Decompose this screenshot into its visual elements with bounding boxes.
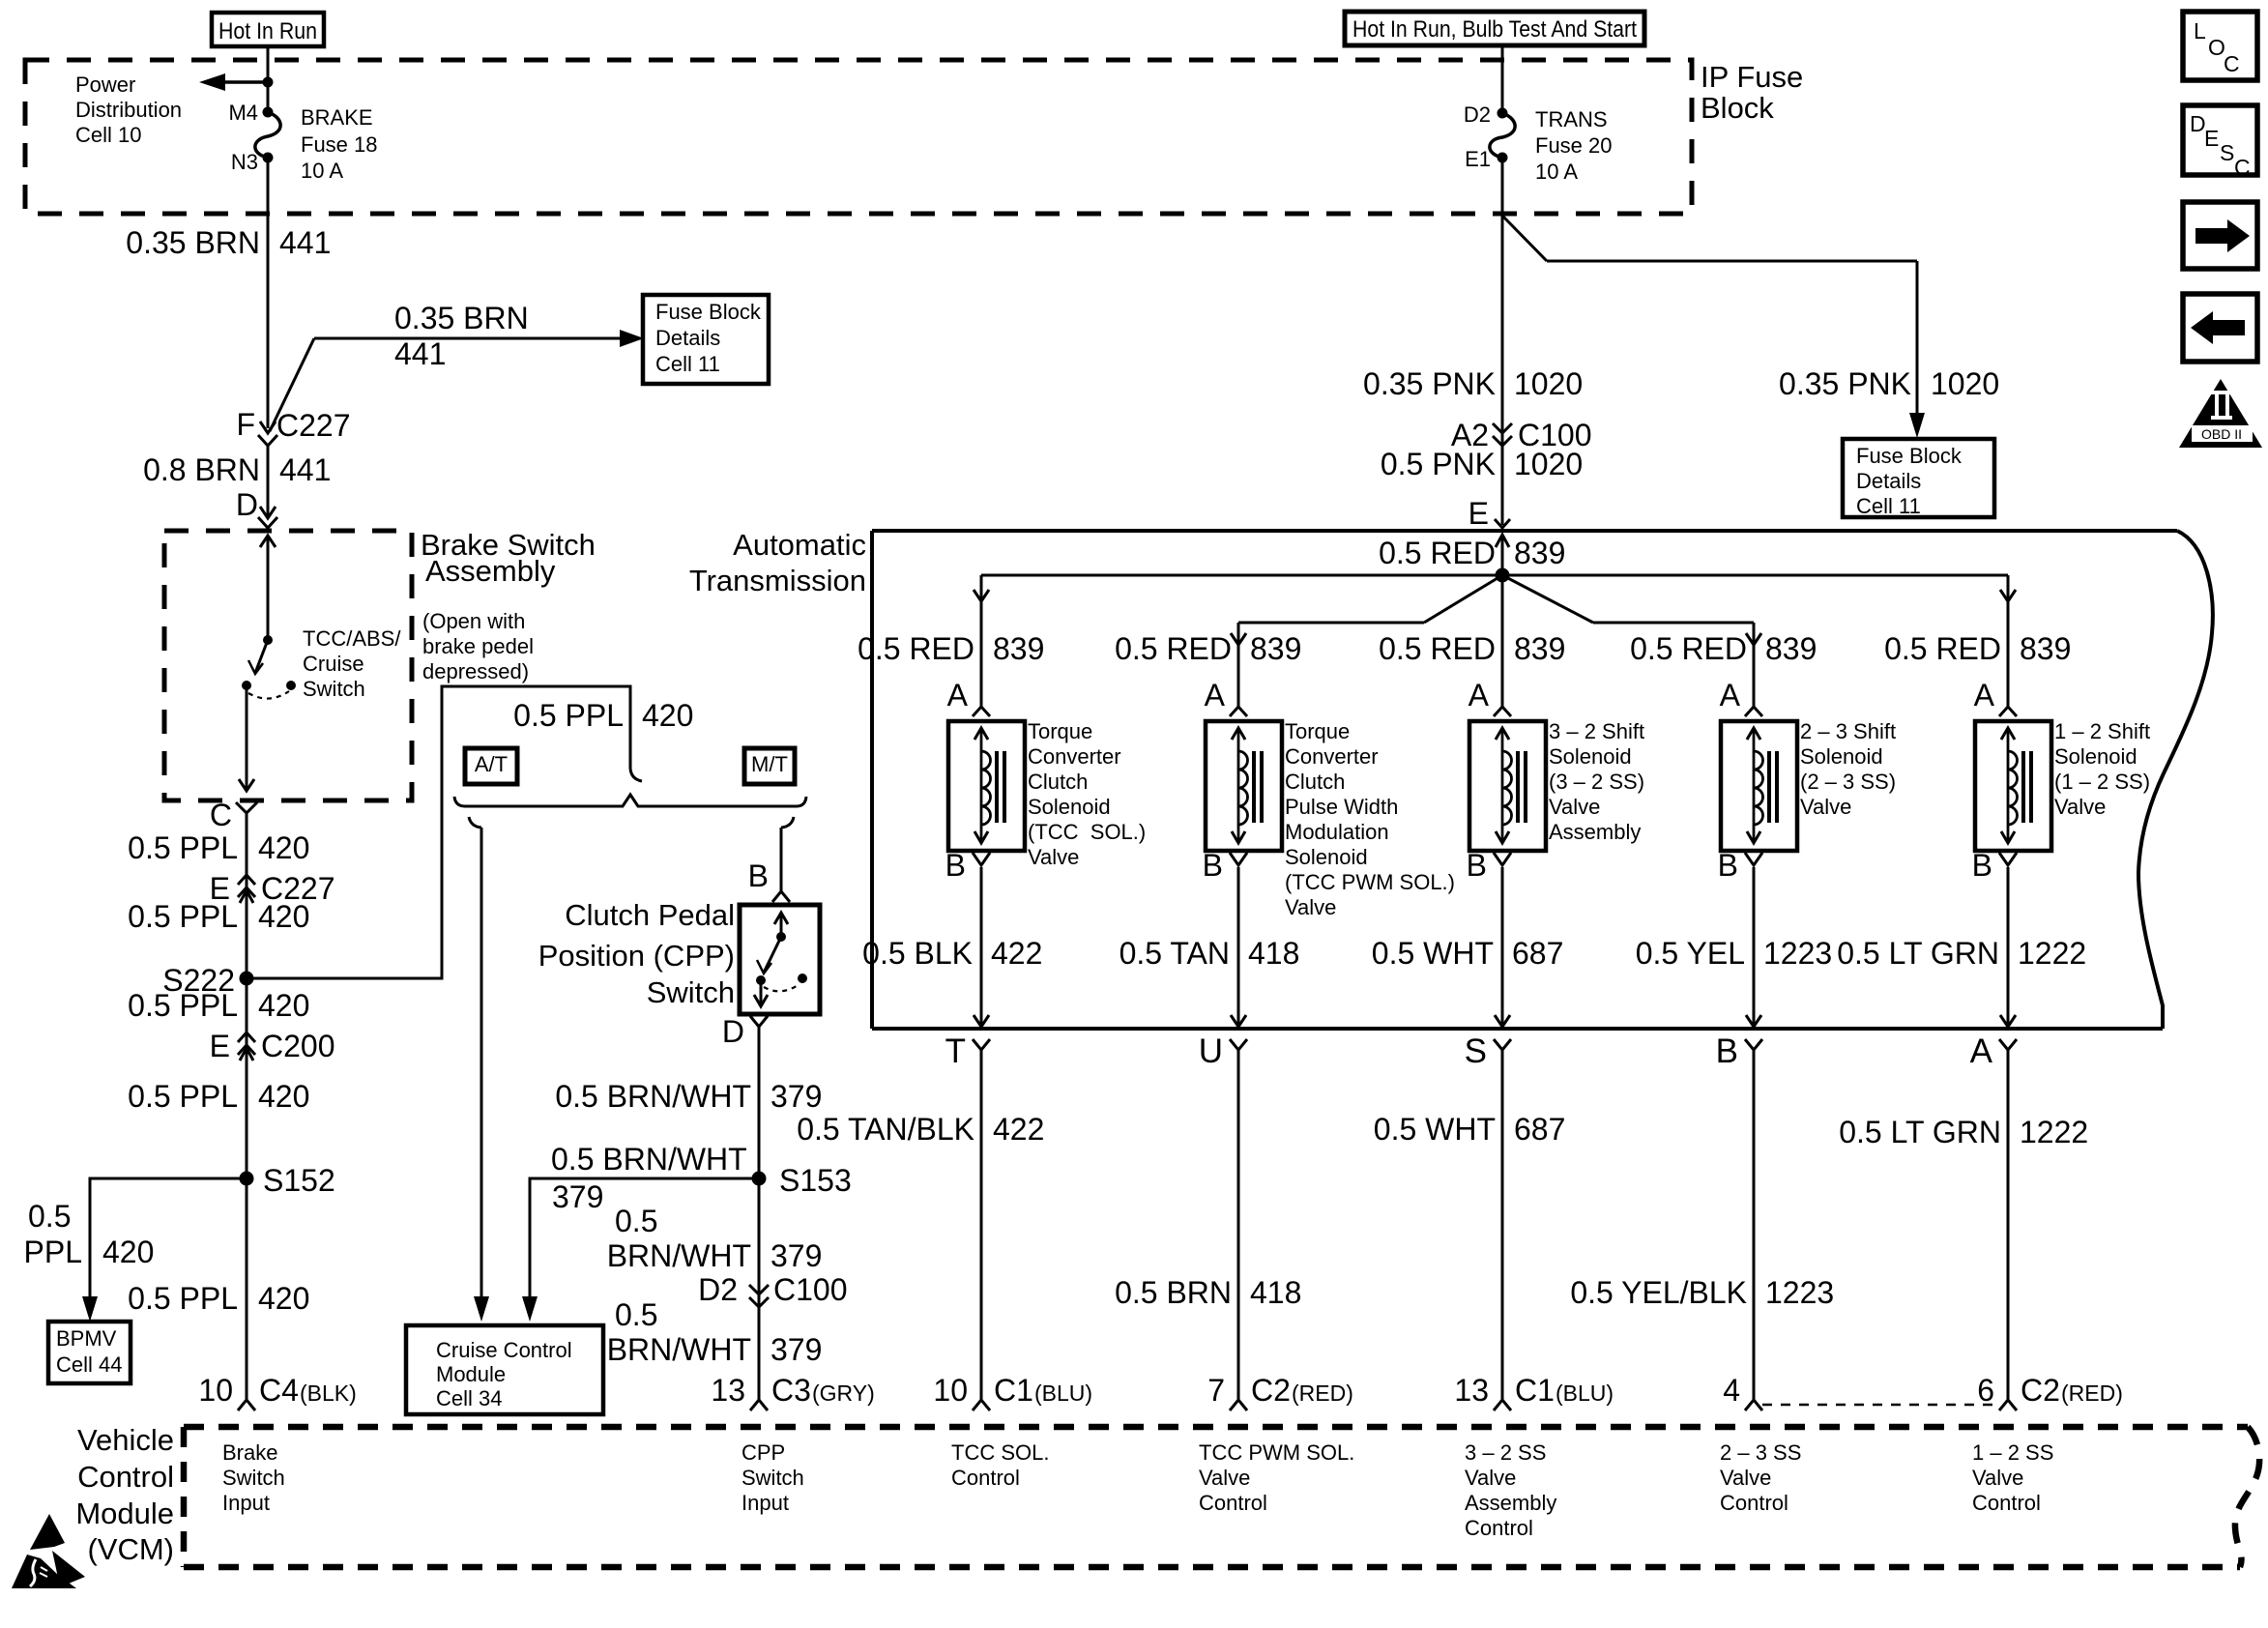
svg-text:E: E [2204, 126, 2219, 151]
svg-text:(3 – 2 SS): (3 – 2 SS) [1549, 770, 1644, 794]
svg-text:Details: Details [655, 326, 720, 350]
svg-text:BRAKE: BRAKE [301, 105, 373, 130]
svg-text:13: 13 [1454, 1373, 1489, 1408]
svg-text:Control: Control [77, 1460, 174, 1494]
svg-text:Cell 44: Cell 44 [56, 1352, 122, 1377]
svg-text:Control: Control [1465, 1516, 1533, 1540]
svg-text:Valve: Valve [1028, 845, 1079, 869]
svg-text:418: 418 [1248, 936, 1299, 971]
svg-text:0.5 PPL: 0.5 PPL [128, 899, 238, 934]
svg-text:Clutch: Clutch [1028, 770, 1088, 794]
svg-text:0.5 TAN: 0.5 TAN [1119, 936, 1230, 971]
svg-text:BRN/WHT: BRN/WHT [607, 1332, 751, 1367]
svg-text:Transmission: Transmission [689, 564, 866, 597]
svg-text:3 – 2 SS: 3 – 2 SS [1465, 1440, 1546, 1465]
svg-text:0.5 PPL: 0.5 PPL [128, 988, 238, 1023]
svg-text:BRN/WHT: BRN/WHT [607, 1238, 751, 1273]
svg-text:0.5 WHT: 0.5 WHT [1374, 1112, 1496, 1147]
svg-text:C100: C100 [773, 1272, 848, 1307]
svg-text:TRANS: TRANS [1535, 107, 1608, 131]
svg-text:A: A [1970, 1032, 1993, 1070]
svg-text:379: 379 [771, 1079, 822, 1114]
svg-text:0.5: 0.5 [28, 1199, 71, 1234]
svg-text:839: 839 [1250, 631, 1301, 666]
svg-text:Control: Control [951, 1466, 1020, 1490]
svg-text:Switch: Switch [222, 1466, 285, 1490]
svg-text:C: C [2234, 155, 2251, 180]
svg-text:0.5 YEL/BLK: 0.5 YEL/BLK [1570, 1275, 1747, 1310]
svg-text:0.35 BRN: 0.35 BRN [394, 301, 529, 335]
svg-text:1223: 1223 [1763, 936, 1832, 971]
svg-text:687: 687 [1514, 1112, 1565, 1147]
svg-text:0.5 PPL: 0.5 PPL [128, 830, 238, 865]
svg-text:2 – 3 SS: 2 – 3 SS [1720, 1440, 1801, 1465]
svg-text:441: 441 [279, 225, 331, 260]
svg-text:6: 6 [1977, 1373, 1994, 1408]
svg-text:839: 839 [1765, 631, 1817, 666]
svg-text:Assembly: Assembly [1465, 1491, 1556, 1515]
svg-text:(TCC SOL.): (TCC SOL.) [1028, 820, 1146, 844]
svg-text:Distribution: Distribution [75, 98, 182, 122]
svg-text:Cell 11: Cell 11 [1856, 494, 1921, 518]
svg-text:M/T: M/T [751, 752, 788, 776]
svg-text:Input: Input [741, 1491, 789, 1515]
svg-text:C1: C1 [994, 1373, 1033, 1408]
svg-text:2 – 3 Shift: 2 – 3 Shift [1800, 719, 1896, 743]
svg-text:10: 10 [933, 1373, 968, 1408]
svg-text:420: 420 [258, 988, 309, 1023]
svg-text:0.35 PNK: 0.35 PNK [1779, 366, 1911, 401]
svg-text:Torque: Torque [1028, 719, 1092, 743]
svg-text:Valve: Valve [1465, 1466, 1516, 1490]
svg-text:Solenoid: Solenoid [1028, 795, 1111, 819]
svg-text:(RED): (RED) [2061, 1381, 2123, 1406]
svg-text:CPP: CPP [741, 1440, 785, 1465]
svg-text:Assembly: Assembly [1549, 820, 1641, 844]
svg-text:Solenoid: Solenoid [1800, 744, 1883, 769]
svg-text:1020: 1020 [1514, 366, 1583, 401]
svg-text:1222: 1222 [2018, 936, 2086, 971]
svg-text:brake pedel: brake pedel [422, 634, 534, 658]
svg-text:Converter: Converter [1285, 744, 1379, 769]
svg-text:0.5: 0.5 [615, 1204, 657, 1238]
svg-text:0.5 BRN: 0.5 BRN [1115, 1275, 1232, 1310]
svg-text:B: B [1716, 1032, 1738, 1070]
svg-text:0.5 YEL: 0.5 YEL [1636, 936, 1745, 971]
svg-text:Details: Details [1856, 469, 1921, 493]
svg-text:Module: Module [436, 1362, 506, 1386]
svg-text:0.8 BRN: 0.8 BRN [143, 452, 260, 487]
svg-text:1 – 2 Shift: 1 – 2 Shift [2054, 719, 2150, 743]
svg-text:B: B [748, 858, 769, 893]
svg-text:Control: Control [1199, 1491, 1267, 1515]
svg-text:Input: Input [222, 1491, 270, 1515]
svg-text:(VCM): (VCM) [87, 1532, 174, 1566]
svg-text:0.35 PNK: 0.35 PNK [1363, 366, 1496, 401]
svg-text:10 A: 10 A [1535, 160, 1578, 184]
svg-text:Valve: Valve [2054, 795, 2106, 819]
svg-text:S: S [2220, 140, 2234, 165]
svg-text:1 – 2 SS: 1 – 2 SS [1972, 1440, 2053, 1465]
svg-text:(BLU): (BLU) [1034, 1381, 1092, 1406]
svg-text:Solenoid: Solenoid [1285, 845, 1368, 869]
svg-text:0.5 PPL: 0.5 PPL [513, 698, 624, 733]
svg-text:Switch: Switch [303, 677, 365, 701]
svg-text:Pulse Width: Pulse Width [1285, 795, 1398, 819]
svg-text:(GRY): (GRY) [812, 1381, 875, 1406]
svg-text:839: 839 [993, 631, 1044, 666]
svg-text:420: 420 [642, 698, 693, 733]
svg-text:A/T: A/T [475, 752, 508, 776]
svg-text:BPMV: BPMV [56, 1326, 117, 1351]
svg-text:E: E [1468, 496, 1489, 531]
svg-text:OBD II: OBD II [2201, 426, 2242, 442]
svg-text:Switch: Switch [647, 975, 735, 1009]
svg-text:Valve: Valve [1285, 895, 1336, 919]
svg-text:Vehicle: Vehicle [77, 1423, 174, 1457]
svg-text:420: 420 [258, 1281, 309, 1316]
svg-text:441: 441 [394, 336, 446, 371]
svg-text:Cell 34: Cell 34 [436, 1386, 502, 1410]
svg-text:0.5 TAN/BLK: 0.5 TAN/BLK [797, 1112, 974, 1147]
svg-text:M4: M4 [228, 101, 258, 125]
svg-text:Fuse 18: Fuse 18 [301, 132, 378, 157]
svg-text:Cruise: Cruise [303, 652, 364, 676]
svg-text:Power: Power [75, 73, 135, 97]
svg-text:F: F [236, 407, 255, 442]
svg-text:839: 839 [1514, 536, 1565, 570]
svg-text:Modulation: Modulation [1285, 820, 1389, 844]
svg-text:Fuse Block: Fuse Block [1856, 444, 1963, 468]
svg-text:Torque: Torque [1285, 719, 1350, 743]
svg-text:Brake: Brake [222, 1440, 277, 1465]
svg-text:S: S [1465, 1032, 1487, 1070]
svg-text:Valve: Valve [1800, 795, 1851, 819]
svg-text:TCC PWM SOL.: TCC PWM SOL. [1199, 1440, 1354, 1465]
svg-text:E: E [210, 1029, 230, 1063]
svg-text:10: 10 [198, 1373, 233, 1408]
svg-text:0.5 WHT: 0.5 WHT [1372, 936, 1494, 971]
svg-text:A: A [1974, 678, 1995, 712]
svg-text:(BLK): (BLK) [300, 1381, 357, 1406]
svg-text:Cruise Control: Cruise Control [436, 1338, 572, 1362]
svg-text:Fuse Block: Fuse Block [655, 300, 762, 324]
svg-text:422: 422 [993, 1112, 1044, 1147]
svg-text:D2: D2 [1464, 102, 1491, 127]
svg-text:0.5 RED: 0.5 RED [858, 631, 974, 666]
svg-text:4: 4 [1723, 1373, 1740, 1408]
svg-text:0.5 LT GRN: 0.5 LT GRN [1837, 936, 1999, 971]
svg-text:C2: C2 [2021, 1373, 2060, 1408]
svg-text:Solenoid: Solenoid [1549, 744, 1632, 769]
svg-text:1020: 1020 [1514, 447, 1583, 481]
svg-text:depressed): depressed) [422, 659, 529, 683]
svg-text:Switch: Switch [741, 1466, 804, 1490]
svg-text:Hot In Run: Hot In Run [218, 18, 317, 44]
svg-text:839: 839 [2020, 631, 2071, 666]
svg-text:TCC/ABS/: TCC/ABS/ [303, 626, 401, 651]
svg-text:Valve: Valve [1972, 1466, 2023, 1490]
svg-text:379: 379 [771, 1238, 822, 1273]
svg-text:Automatic: Automatic [733, 528, 866, 562]
svg-text:0.5 RED: 0.5 RED [1115, 631, 1232, 666]
svg-text:Assembly: Assembly [425, 554, 556, 588]
svg-text:420: 420 [258, 899, 309, 934]
svg-text:(Open with: (Open with [422, 609, 525, 633]
svg-text:1222: 1222 [2020, 1115, 2088, 1149]
svg-text:Control: Control [1972, 1491, 2041, 1515]
svg-text:B: B [1972, 848, 1992, 883]
svg-text:Hot In Run, Bulb Test And Star: Hot In Run, Bulb Test And Start [1352, 16, 1637, 43]
svg-text:0.5 RED: 0.5 RED [1379, 631, 1496, 666]
svg-text:0.5 BLK: 0.5 BLK [862, 936, 973, 971]
svg-text:839: 839 [1514, 631, 1565, 666]
svg-text:U: U [1199, 1032, 1223, 1070]
svg-text:0.5: 0.5 [615, 1297, 657, 1332]
svg-text:(RED): (RED) [1292, 1381, 1353, 1406]
svg-text:B: B [1203, 848, 1223, 883]
svg-text:S152: S152 [263, 1163, 335, 1198]
svg-text:(2 – 3 SS): (2 – 3 SS) [1800, 770, 1896, 794]
svg-text:N3: N3 [231, 150, 258, 174]
svg-text:Clutch Pedal: Clutch Pedal [565, 898, 735, 932]
svg-text:Valve: Valve [1549, 795, 1600, 819]
svg-text:C4: C4 [259, 1373, 299, 1408]
svg-text:Cell 11: Cell 11 [655, 352, 720, 376]
svg-text:IP Fuse: IP Fuse [1701, 60, 1803, 94]
svg-text:0.35 BRN: 0.35 BRN [126, 225, 260, 260]
svg-text:E1: E1 [1465, 147, 1491, 171]
svg-text:C200: C200 [261, 1029, 335, 1063]
svg-text:(BLU): (BLU) [1556, 1381, 1614, 1406]
svg-text:10 A: 10 A [301, 159, 343, 183]
svg-text:D2: D2 [698, 1272, 738, 1307]
svg-text:420: 420 [102, 1235, 154, 1269]
svg-text:418: 418 [1250, 1275, 1301, 1310]
svg-text:A: A [1468, 678, 1490, 712]
svg-text:0.5 RED: 0.5 RED [1630, 631, 1747, 666]
svg-text:D: D [722, 1014, 744, 1049]
svg-text:C2: C2 [1251, 1373, 1291, 1408]
svg-text:C227: C227 [276, 408, 351, 443]
svg-text:C1: C1 [1515, 1373, 1555, 1408]
svg-text:0.5 PNK: 0.5 PNK [1381, 447, 1496, 481]
svg-text:Converter: Converter [1028, 744, 1121, 769]
svg-text:420: 420 [258, 1079, 309, 1114]
svg-text:441: 441 [279, 452, 331, 487]
svg-text:687: 687 [1512, 936, 1563, 971]
svg-text:0.5 PPL: 0.5 PPL [128, 1079, 238, 1114]
svg-text:Module: Module [75, 1497, 174, 1530]
svg-text:PPL: PPL [24, 1235, 82, 1269]
svg-text:Fuse 20: Fuse 20 [1535, 133, 1613, 158]
svg-text:379: 379 [771, 1332, 822, 1367]
svg-text:Control: Control [1720, 1491, 1788, 1515]
svg-text:3 – 2 Shift: 3 – 2 Shift [1549, 719, 1644, 743]
svg-text:Position (CPP): Position (CPP) [538, 939, 735, 973]
svg-text:420: 420 [258, 830, 309, 865]
svg-text:0.5 RED: 0.5 RED [1379, 536, 1496, 570]
svg-text:C: C [210, 798, 232, 832]
svg-text:0.5 BRN/WHT: 0.5 BRN/WHT [551, 1142, 747, 1177]
svg-text:Cell 10: Cell 10 [75, 123, 141, 147]
svg-text:A: A [1720, 678, 1741, 712]
svg-text:1223: 1223 [1765, 1275, 1834, 1310]
svg-text:B: B [1718, 848, 1738, 883]
svg-text:(TCC PWM SOL.): (TCC PWM SOL.) [1285, 870, 1455, 894]
svg-text:Block: Block [1701, 91, 1774, 125]
svg-text:Valve: Valve [1199, 1466, 1250, 1490]
svg-text:0.5 BRN/WHT: 0.5 BRN/WHT [555, 1079, 751, 1114]
svg-text:7: 7 [1207, 1373, 1225, 1408]
svg-text:1020: 1020 [1931, 366, 1999, 401]
svg-text:L: L [2194, 18, 2206, 44]
svg-text:S153: S153 [779, 1163, 852, 1198]
svg-text:C3: C3 [771, 1373, 811, 1408]
svg-text:D: D [236, 487, 258, 522]
svg-text:Valve: Valve [1720, 1466, 1771, 1490]
svg-text:0.5 RED: 0.5 RED [1884, 631, 2001, 666]
svg-text:13: 13 [711, 1373, 745, 1408]
svg-text:(1 – 2 SS): (1 – 2 SS) [2054, 770, 2150, 794]
svg-text:Clutch: Clutch [1285, 770, 1345, 794]
svg-text:T: T [945, 1032, 966, 1070]
svg-text:B: B [1467, 848, 1487, 883]
svg-text:Solenoid: Solenoid [2054, 744, 2137, 769]
svg-text:A: A [947, 678, 969, 712]
svg-text:C: C [2224, 51, 2240, 76]
svg-text:422: 422 [991, 936, 1042, 971]
svg-text:TCC SOL.: TCC SOL. [951, 1440, 1049, 1465]
svg-text:B: B [945, 848, 966, 883]
svg-text:A: A [1205, 678, 1226, 712]
svg-text:379: 379 [552, 1179, 603, 1214]
svg-text:0.5 PPL: 0.5 PPL [128, 1281, 238, 1316]
svg-text:0.5 LT GRN: 0.5 LT GRN [1839, 1115, 2001, 1149]
